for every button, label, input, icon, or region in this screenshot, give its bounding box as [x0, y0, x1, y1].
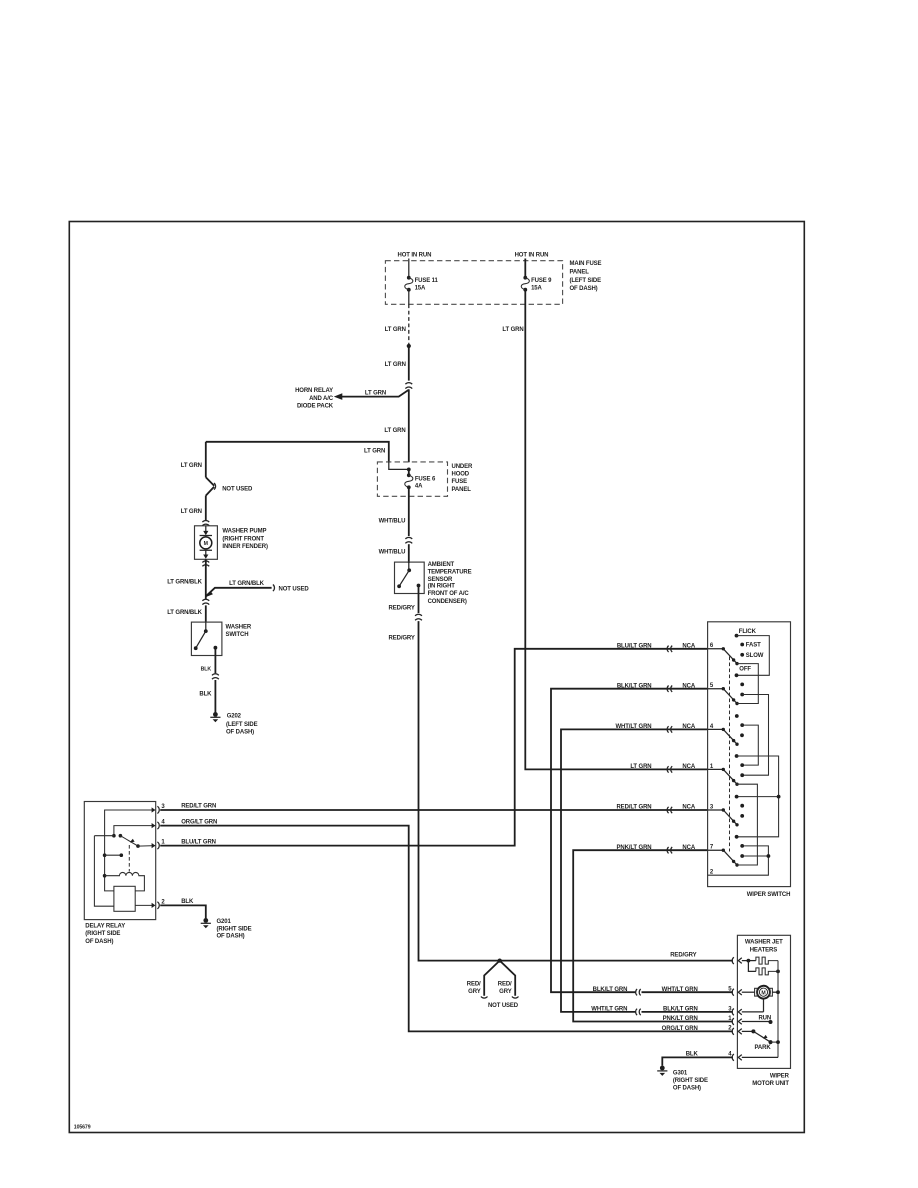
inline connector row 7: [667, 847, 672, 853]
svg-text:DIODE PACK: DIODE PACK: [297, 404, 334, 410]
contacts row 7: [740, 844, 744, 848]
svg-text:RED/LT GRN: RED/LT GRN: [181, 804, 216, 810]
motor pin connector 5: [732, 989, 742, 996]
arrowhead to horn relay: [334, 393, 343, 400]
svg-text:FUSE 9: FUSE 9: [531, 278, 552, 284]
svg-text:NCA: NCA: [682, 643, 695, 649]
svg-text:RED/: RED/: [498, 982, 512, 988]
svg-text:WASHER PUMP: WASHER PUMP: [222, 529, 266, 535]
wire row6 tip to row5 tip: [737, 664, 758, 704]
inline connector row 5: [667, 686, 672, 692]
svg-text:HEATERS: HEATERS: [750, 947, 778, 953]
wire jog joining branch to fuse 6: [389, 462, 409, 470]
contacts row 3: [740, 804, 744, 808]
wire BLK to ground: [214, 680, 216, 712]
relay ground-side internal wire: [94, 836, 114, 907]
svg-text:MOTOR UNIT: MOTOR UNIT: [752, 1081, 789, 1087]
svg-text:NCA: NCA: [682, 724, 695, 730]
svg-text:FLICK: FLICK: [739, 629, 757, 635]
wire row4 contact to row1 contact: [742, 725, 758, 765]
svg-text:RED/GRY: RED/GRY: [389, 605, 415, 611]
svg-text:(RIGHT FRONT: (RIGHT FRONT: [222, 536, 264, 542]
svg-text:NOT USED: NOT USED: [222, 487, 253, 493]
node FLICK: [735, 634, 739, 638]
motor pin connector 1: [732, 1018, 742, 1025]
motor pin connector 3: [732, 1009, 742, 1016]
svg-text:LT GRN/BLK: LT GRN/BLK: [167, 579, 202, 585]
fuse 9 15A: [523, 276, 527, 280]
inline connector on BLK: [212, 674, 219, 679]
svg-text:BLK: BLK: [181, 899, 194, 905]
svg-text:OFF: OFF: [739, 666, 751, 672]
svg-text:(RIGHT SIDE: (RIGHT SIDE: [217, 926, 252, 932]
not-used tap on LT GRN: [206, 477, 214, 495]
svg-text:(IN RIGHT: (IN RIGHT: [428, 584, 456, 590]
svg-text:FAST: FAST: [746, 643, 761, 649]
svg-text:BLK/LT GRN: BLK/LT GRN: [663, 1007, 698, 1013]
svg-text:BLK: BLK: [199, 692, 212, 698]
relay switch armature: [112, 834, 116, 838]
washer pump motor symbol: [205, 526, 207, 532]
motor common bus: [777, 961, 779, 1058]
ground G202: [213, 712, 218, 717]
inline connector on WHT/BLU: [405, 537, 412, 543]
svg-text:NCA: NCA: [682, 805, 695, 811]
svg-text:SLOW: SLOW: [746, 653, 764, 659]
wire row5 contact to row1 contact: [742, 695, 768, 776]
relay coil: [103, 874, 107, 878]
wire BLK to ground: [662, 1057, 733, 1065]
svg-text:TEMPERATURE: TEMPERATURE: [428, 570, 472, 576]
svg-text:G301: G301: [673, 1070, 688, 1076]
inline connector at washer pump: [202, 520, 209, 525]
svg-text:2: 2: [161, 899, 165, 905]
svg-text:WHT/BLU: WHT/BLU: [379, 519, 406, 525]
wire row7 contacts to pin 2: [708, 846, 769, 875]
inline connector row 1: [667, 766, 672, 772]
relay internal wire pin 1: [138, 845, 155, 848]
wire BLK/LT GRN into motor pin 3: [642, 1011, 733, 1013]
svg-text:(LEFT SIDE: (LEFT SIDE: [570, 278, 602, 284]
svg-text:AND A/C: AND A/C: [309, 396, 334, 402]
inline connector row 3: [667, 807, 672, 813]
washer switch contacts: [205, 622, 207, 631]
run contact: [742, 1021, 771, 1023]
svg-text:NOT USED: NOT USED: [279, 586, 310, 592]
svg-text:OF DASH): OF DASH): [85, 939, 113, 945]
main fuse panel (dashed box): [385, 261, 562, 305]
delay relay box: [84, 802, 155, 920]
switch wiper row 5: [722, 687, 725, 690]
wire stem into fuse 9: [524, 259, 526, 277]
wire BLK out of washer switch: [214, 648, 216, 674]
junction node RED/GRY split: [498, 959, 502, 963]
svg-text:G202: G202: [227, 714, 242, 720]
svg-text:WHT/BLU: WHT/BLU: [379, 549, 406, 555]
svg-text:GRY: GRY: [468, 989, 481, 995]
svg-text:2: 2: [710, 869, 714, 875]
svg-text:4A: 4A: [415, 484, 423, 490]
svg-text:1: 1: [161, 840, 165, 846]
wire RED/GRY down to wiper motor unit: [419, 621, 733, 961]
svg-text:105679: 105679: [74, 1125, 91, 1131]
svg-text:PARK: PARK: [754, 1045, 771, 1051]
wire LT GRN: [408, 346, 410, 381]
inline connector BLK/LT GRN to WHT/LT GRN: [636, 989, 641, 995]
svg-text:FRONT OF A/C: FRONT OF A/C: [428, 591, 470, 597]
ambient temperature sensor box: [395, 562, 425, 593]
svg-text:RED/GRY: RED/GRY: [670, 952, 696, 958]
svg-text:15A: 15A: [531, 285, 542, 291]
svg-text:(RIGHT SIDE: (RIGHT SIDE: [673, 1078, 708, 1084]
wiper switch dashed common bar: [729, 657, 731, 852]
svg-text:BLU/LT GRN: BLU/LT GRN: [617, 643, 652, 649]
pin connector 1: [157, 842, 159, 849]
wire RED/LT GRN (relay pin 3 to wiper switch pin 3): [160, 809, 707, 811]
svg-text:WIPER SWITCH: WIPER SWITCH: [747, 892, 791, 898]
inline connector row 4: [667, 726, 672, 732]
svg-text:WIPER: WIPER: [770, 1073, 790, 1079]
svg-text:NOT USED: NOT USED: [488, 1003, 519, 1009]
svg-text:LT GRN: LT GRN: [364, 449, 385, 455]
motor pin connector 4: [732, 1054, 742, 1061]
pin connector 4: [157, 822, 159, 829]
svg-text:LT GRN: LT GRN: [365, 390, 386, 396]
wire branch to horn relay: [342, 390, 409, 397]
wiper motor unit box: [737, 935, 790, 1068]
heater feed wire: [742, 960, 756, 962]
wire into fuse 6: [408, 469, 410, 474]
junction node above fuse 6: [407, 468, 411, 472]
not-used stub RED/GRY left: [484, 961, 500, 996]
washer pump box: [195, 526, 218, 560]
fuse 6 4A: [407, 473, 411, 477]
wiper motor M: [742, 991, 755, 993]
svg-text:RED/LT GRN: RED/LT GRN: [616, 805, 651, 811]
motor pin connector 2: [732, 1028, 742, 1035]
svg-text:WASHER: WASHER: [226, 625, 252, 631]
motor pin connector heater: [732, 957, 742, 964]
svg-text:OF DASH): OF DASH): [570, 286, 598, 292]
svg-text:RED/GRY: RED/GRY: [389, 636, 415, 642]
inline connector below washer pump: [202, 561, 209, 566]
inline connector on RED/GRY: [415, 614, 422, 620]
contact row 1 first: [735, 754, 739, 758]
svg-text:HOT IN RUN: HOT IN RUN: [515, 253, 549, 259]
svg-text:AMBIENT: AMBIENT: [428, 562, 455, 568]
wire BLU/LT GRN (relay pin 1 to wiper switch pin 6): [160, 649, 707, 846]
wire WHT/BLU into sensor: [408, 544, 410, 563]
washer switch box: [191, 622, 222, 655]
svg-text:PNK/LT GRN: PNK/LT GRN: [663, 1016, 698, 1022]
motor brush to pin 3: [742, 999, 764, 1012]
svg-text:BLK: BLK: [686, 1052, 699, 1058]
svg-text:BLU/LT GRN: BLU/LT GRN: [181, 839, 216, 845]
wire WHT/LT GRN into motor pin 5: [642, 991, 733, 993]
border frame: [69, 222, 804, 1133]
not-used stub RED/GRY right: [500, 961, 516, 996]
wire BLK pin 4 to common bus: [742, 1056, 778, 1058]
svg-text:15A: 15A: [415, 285, 426, 291]
not-used branch wire LT GRN/BLK: [206, 588, 272, 597]
relay timer module box: [114, 886, 135, 911]
ground G301: [660, 1066, 665, 1071]
wire LT GRN/BLK into washer switch: [205, 605, 207, 622]
contacts row 4: [735, 714, 739, 718]
svg-text:M: M: [761, 990, 765, 996]
svg-text:3: 3: [161, 804, 165, 810]
contacts row 5: [740, 683, 744, 687]
wire LT GRN/BLK: [205, 559, 207, 599]
wire LT GRN down to washer pump: [205, 442, 207, 478]
svg-text:SWITCH: SWITCH: [226, 632, 249, 638]
junction node on LT GRN: [407, 344, 411, 348]
relay internal wire pin 4: [114, 826, 155, 836]
relay internal wire pin 3: [105, 810, 156, 891]
wire WHT/LT GRN (wiper switch pin 4 to motor connector): [561, 729, 708, 1012]
svg-text:WASHER JET: WASHER JET: [745, 940, 783, 946]
switch wiper row 7: [722, 849, 725, 852]
svg-text:OF DASH): OF DASH): [673, 1086, 701, 1092]
svg-text:PANEL: PANEL: [452, 487, 472, 493]
switch wiper row 4: [722, 728, 725, 731]
svg-text:LT GRN: LT GRN: [384, 428, 405, 434]
svg-text:PNK/LT GRN: PNK/LT GRN: [616, 845, 651, 851]
svg-text:PANEL: PANEL: [570, 269, 590, 275]
svg-text:NCA: NCA: [682, 764, 695, 770]
wire BLK/LT GRN (wiper switch pin 5 to motor connector): [551, 689, 708, 993]
wire LT GRN dashed below fuse 11: [408, 291, 410, 305]
washer jet heater element 2: [748, 961, 756, 972]
wire LT GRN below connector: [408, 389, 410, 462]
pin connector 3: [157, 806, 159, 813]
wire stem into fuse 11: [408, 259, 410, 277]
sensor internal switch: [408, 562, 410, 570]
wire BLK (relay pin 2 to ground): [160, 905, 206, 918]
inline connector row 6: [667, 646, 672, 652]
fuse 11 15A: [407, 276, 411, 280]
svg-text:RED/: RED/: [467, 982, 481, 988]
svg-text:HOT IN RUN: HOT IN RUN: [397, 253, 431, 259]
svg-text:FUSE 11: FUSE 11: [415, 278, 439, 284]
inline connector on LT GRN: [405, 383, 412, 389]
wire branch to washer pump (horizontal): [206, 442, 389, 463]
svg-text:LT GRN/BLK: LT GRN/BLK: [167, 610, 202, 616]
wire RED/GRY out of sensor: [418, 586, 420, 614]
svg-text:NCA: NCA: [682, 845, 695, 851]
svg-text:MAIN FUSE: MAIN FUSE: [570, 261, 602, 267]
wire PNK/LT GRN (wiper switch pin 7 to motor pin 1): [573, 850, 733, 1021]
relay internal wire pin 2: [135, 904, 152, 906]
svg-text:LT GRN: LT GRN: [181, 509, 202, 515]
svg-text:LT GRN: LT GRN: [630, 764, 651, 770]
svg-text:FUSE 6: FUSE 6: [415, 476, 436, 482]
relay mechanical link (dashed): [128, 845, 130, 872]
washer jet heater element 1: [756, 957, 778, 964]
svg-text:(RIGHT SIDE: (RIGHT SIDE: [85, 931, 120, 937]
svg-text:SENSOR: SENSOR: [428, 577, 453, 583]
wire LT GRN (fuse 9 to wiper switch pin 1): [525, 290, 707, 770]
label SLOW: [740, 653, 744, 657]
park switch: [742, 1030, 754, 1032]
wiper switch box: [708, 622, 791, 887]
svg-text:G201: G201: [217, 919, 232, 925]
svg-text:FUSE: FUSE: [452, 479, 468, 485]
switch wiper row 6: [722, 647, 725, 650]
ground G201: [203, 918, 208, 923]
pin connector 2: [157, 902, 159, 909]
wire LT GRN: [205, 496, 207, 520]
svg-text:HORN RELAY: HORN RELAY: [295, 388, 333, 394]
svg-text:HOOD: HOOD: [452, 472, 470, 478]
pin stub wires inside wiper switch: [708, 649, 724, 850]
svg-text:CONDENSER): CONDENSER): [428, 599, 467, 605]
svg-text:M: M: [204, 541, 208, 547]
wire row1 contact to row3/row7 contacts: [737, 756, 779, 837]
inline connector WHT/LT GRN to BLK/LT GRN: [636, 1009, 641, 1015]
switch wiper row 1: [722, 768, 725, 771]
wire WHT/BLU below fuse 6: [408, 487, 410, 536]
relay fixed contact stub: [103, 853, 107, 857]
svg-text:WHT/LT GRN: WHT/LT GRN: [662, 987, 698, 993]
svg-text:BLK/LT GRN: BLK/LT GRN: [593, 987, 628, 993]
svg-text:LT GRN: LT GRN: [385, 327, 406, 333]
svg-text:4: 4: [161, 820, 165, 826]
switch wiper row 3: [722, 808, 725, 811]
svg-text:LT GRN/BLK: LT GRN/BLK: [229, 581, 264, 587]
wire FLICK to OFF: [737, 636, 770, 676]
inline connector on LT GRN/BLK: [202, 599, 209, 604]
svg-text:BLK: BLK: [201, 666, 212, 672]
svg-text:DELAY RELAY: DELAY RELAY: [85, 923, 125, 929]
svg-text:ORG/LT GRN: ORG/LT GRN: [181, 819, 217, 825]
label FAST: [740, 643, 744, 647]
svg-text:NCA: NCA: [682, 683, 695, 689]
svg-text:BLK/LT GRN: BLK/LT GRN: [617, 683, 652, 689]
under hood fuse panel (dashed box): [377, 462, 447, 496]
svg-text:OF DASH): OF DASH): [226, 729, 254, 735]
svg-text:(LEFT SIDE: (LEFT SIDE: [226, 722, 258, 728]
svg-text:WHT/LT GRN: WHT/LT GRN: [591, 1007, 627, 1013]
wire row1 tip to row7 tip: [737, 784, 758, 865]
svg-text:INNER FENDER): INNER FENDER): [222, 544, 268, 550]
svg-text:ORG/LT GRN: ORG/LT GRN: [662, 1026, 698, 1032]
svg-text:LT GRN: LT GRN: [385, 362, 406, 368]
svg-text:GRY: GRY: [499, 989, 512, 995]
svg-text:LT GRN: LT GRN: [502, 327, 523, 333]
svg-text:UNDER: UNDER: [452, 464, 474, 470]
svg-text:OF DASH): OF DASH): [217, 934, 245, 940]
node OFF: [735, 673, 739, 677]
wire ORG/LT GRN (relay pin 4 to wiper motor pin 2): [160, 826, 733, 1032]
svg-text:WHT/LT GRN: WHT/LT GRN: [615, 724, 651, 730]
svg-text:LT GRN: LT GRN: [181, 463, 202, 469]
